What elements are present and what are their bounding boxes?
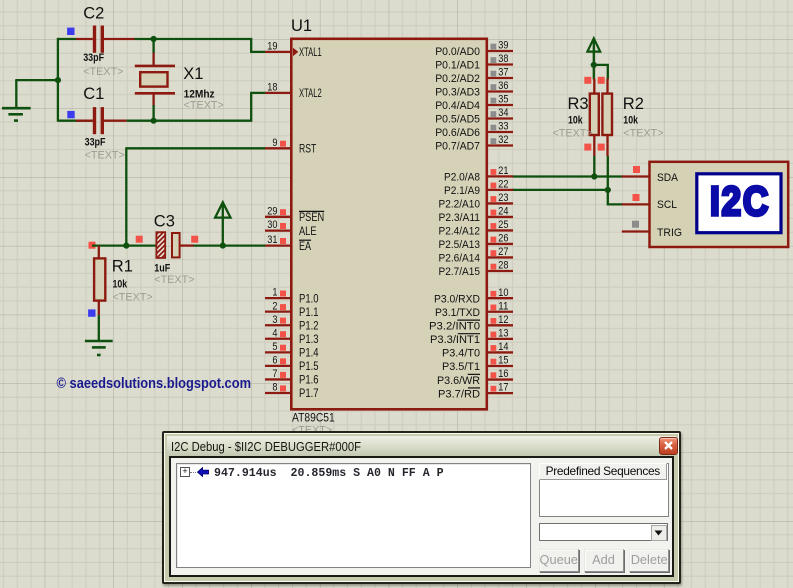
svg-text:39: 39 — [498, 40, 508, 52]
resistor R2 — [606, 79, 608, 94]
wire SDA net — [512, 175, 623, 177]
blue arrow icon — [197, 467, 209, 478]
svg-text:C3: C3 — [154, 213, 175, 231]
blue terminal square R1 bottom — [88, 309, 95, 316]
svg-text:4: 4 — [272, 327, 277, 339]
pin 10 P3.0/RXD — [487, 297, 513, 299]
gray handle square TRIG — [632, 221, 639, 228]
svg-text:33: 33 — [498, 121, 508, 133]
svg-text:17: 17 — [498, 382, 508, 394]
svg-text:<TEXT>: <TEXT> — [623, 128, 663, 140]
red handle square R3 top — [584, 77, 591, 84]
svg-text:XTAL1: XTAL1 — [299, 45, 322, 59]
svg-text:32: 32 — [498, 134, 508, 146]
node junction X1 top — [151, 36, 157, 42]
svg-text:P0.6/AD6: P0.6/AD6 — [435, 127, 480, 139]
clock input arrow XTAL1 — [293, 48, 298, 56]
svg-text:P1.4: P1.4 — [299, 346, 319, 360]
pin 39 P0.0/AD0 — [487, 50, 513, 52]
pin 30 ALE — [265, 229, 291, 231]
pin 9 RST — [265, 147, 291, 149]
wire split to R2 — [594, 65, 608, 80]
pin 5 P1.4 — [265, 351, 291, 353]
pin 37 P0.2/AD2 — [487, 77, 513, 79]
svg-text:10k: 10k — [113, 278, 129, 290]
svg-text:P3.7/RD: P3.7/RD — [438, 388, 480, 400]
I2C logo box — [697, 174, 781, 233]
red handle square SDA — [633, 166, 640, 173]
blue terminal square at C2 pin — [67, 28, 74, 35]
svg-text:21: 21 — [498, 165, 508, 177]
pin 1 P1.0 — [265, 297, 291, 299]
svg-text:EA: EA — [299, 239, 311, 253]
node junction X1 bottom — [151, 118, 157, 124]
svg-text:P0.2/AD2: P0.2/AD2 — [435, 73, 480, 85]
svg-text:P2.1/A9: P2.1/A9 — [444, 185, 480, 197]
pin 24 P2.3/A11 — [487, 216, 513, 218]
add button — [584, 549, 624, 572]
power symbol VCC1 — [215, 202, 230, 217]
svg-text:28: 28 — [498, 260, 508, 272]
svg-text:26: 26 — [498, 233, 508, 245]
svg-text:9: 9 — [272, 137, 277, 149]
blue terminal square at C1 pin — [67, 111, 74, 118]
svg-text:P2.7/A15: P2.7/A15 — [439, 266, 481, 278]
svg-text:R1: R1 — [112, 258, 133, 276]
pin 14 P3.4/T0 — [487, 351, 513, 353]
svg-text:PSEN: PSEN — [299, 210, 324, 224]
wire C2 to pin19 jog — [135, 39, 266, 52]
svg-text:P0.3/AD3: P0.3/AD3 — [435, 87, 480, 99]
ground symbol GND1 — [2, 107, 31, 110]
svg-text:33pF: 33pF — [85, 136, 106, 148]
wire X1 bottom to C1 net — [152, 105, 154, 121]
svg-text:SCL: SCL — [657, 199, 677, 211]
svg-text:37: 37 — [498, 67, 508, 79]
wire vertical bus x=57.9 — [57, 38, 59, 122]
pin 3 P1.2 — [265, 324, 291, 326]
svg-text:10k: 10k — [623, 115, 639, 127]
svg-text:P3.0/RXD: P3.0/RXD — [434, 293, 480, 305]
svg-text:<TEXT>: <TEXT> — [113, 291, 153, 303]
node junction R2-SCL — [605, 187, 611, 193]
pin SCL lead — [622, 203, 650, 205]
pin 33 P0.6/AD6 — [487, 131, 513, 133]
crystal X1 — [152, 53, 154, 66]
svg-text:P2.2/A10: P2.2/A10 — [439, 199, 481, 211]
I2C debug dialog window — [162, 431, 681, 584]
svg-text:P0.0/AD0: P0.0/AD0 — [435, 46, 480, 58]
wire ground tee — [15, 79, 58, 81]
svg-text:18: 18 — [267, 82, 277, 94]
svg-text:22: 22 — [498, 179, 508, 191]
svg-text:19: 19 — [267, 41, 277, 53]
svg-text:8: 8 — [272, 382, 277, 394]
pin 7 P1.6 — [265, 378, 291, 380]
wire node R1-to-C3 — [92, 244, 156, 246]
pin 13 P3.3/INT1 — [487, 338, 513, 340]
svg-text:35: 35 — [498, 94, 508, 106]
red handle square SCL — [633, 194, 640, 201]
pin 31 EA — [265, 244, 291, 246]
svg-text:SDA: SDA — [657, 172, 679, 184]
pin 32 P0.7/AD7 — [487, 144, 513, 146]
svg-text:P1.1: P1.1 — [299, 305, 319, 319]
svg-text:30: 30 — [267, 219, 277, 231]
svg-text:34: 34 — [498, 107, 508, 119]
svg-text:P0.5/AD5: P0.5/AD5 — [435, 114, 480, 126]
node junction at ground tee — [55, 77, 61, 83]
pin 12 P3.2/INT0 — [487, 324, 513, 326]
svg-text:<TEXT>: <TEXT> — [154, 274, 194, 286]
svg-text:P3.2/INT0: P3.2/INT0 — [429, 321, 480, 333]
svg-text:14: 14 — [498, 341, 508, 353]
svg-text:P1.3: P1.3 — [299, 332, 319, 346]
wire R1 to ground — [98, 315, 100, 341]
pin SDA lead — [622, 175, 650, 177]
svg-text:P0.1/AD1: P0.1/AD1 — [435, 60, 480, 72]
wire R2 bottom — [607, 156, 609, 190]
wire P2.1 to R2 — [512, 189, 608, 191]
svg-text:7: 7 — [272, 368, 277, 380]
resistor R3 — [593, 79, 595, 94]
pin 18 XTAL2 — [265, 92, 291, 94]
node junction R3-SDA — [591, 173, 597, 179]
svg-text:36: 36 — [498, 80, 508, 92]
power symbol VCC2 — [587, 38, 600, 51]
pin 2 P1.1 — [265, 311, 291, 313]
svg-text:13: 13 — [498, 327, 508, 339]
pin 26 P2.5/A13 — [487, 243, 513, 245]
svg-text:P3.4/T0: P3.4/T0 — [442, 348, 480, 360]
wire RST drop to R1 node — [125, 147, 127, 245]
wire SCL jog — [608, 190, 623, 205]
svg-text:C2: C2 — [83, 5, 104, 23]
svg-text:P3.3/INT1: P3.3/INT1 — [430, 334, 480, 346]
svg-text:23: 23 — [498, 192, 508, 204]
pin 25 P2.4/A12 — [487, 229, 513, 231]
predefined sequences panel — [539, 463, 669, 517]
svg-text:R3: R3 — [568, 95, 589, 113]
svg-text:P3.5/T1: P3.5/T1 — [442, 361, 480, 373]
red handle square C3 left — [136, 236, 143, 243]
red handle square C3 right — [191, 236, 198, 243]
svg-text:X1: X1 — [183, 65, 203, 83]
svg-text:1uF: 1uF — [154, 263, 170, 275]
wire C2-left to vertical bus — [58, 38, 76, 40]
queue button — [539, 549, 579, 572]
svg-text:AT89C51: AT89C51 — [292, 411, 335, 425]
pin 6 P1.5 — [265, 365, 291, 367]
microcontroller U1 body — [291, 39, 487, 410]
svg-text:10: 10 — [498, 287, 508, 299]
wire split to R3 — [593, 65, 595, 80]
svg-text:P2.3/A11: P2.3/A11 — [439, 212, 481, 224]
svg-text:29: 29 — [267, 205, 277, 217]
svg-text:P0.7/AD7: P0.7/AD7 — [435, 141, 480, 153]
svg-text:P1.5: P1.5 — [299, 359, 319, 373]
svg-text:XTAL2: XTAL2 — [299, 86, 322, 100]
node junction power arrow — [220, 243, 226, 249]
svg-text:38: 38 — [498, 53, 508, 65]
pin 34 P0.5/AD5 — [487, 117, 513, 119]
I2C debugger module U2 — [650, 162, 789, 247]
pin 16 P3.6/WR — [487, 378, 513, 380]
svg-text:P1.2: P1.2 — [299, 318, 319, 332]
pin 23 P2.2/A10 — [487, 202, 513, 204]
svg-text:6: 6 — [272, 355, 277, 367]
pin 22 P2.1/A9 — [487, 189, 513, 191]
capacitor C1 — [58, 120, 93, 122]
svg-text:15: 15 — [498, 355, 508, 367]
svg-text:24: 24 — [498, 206, 508, 218]
red handle square R3 bottom — [584, 144, 591, 151]
svg-text:ALE: ALE — [299, 224, 317, 238]
wire C1 to pin18 jog — [127, 93, 265, 121]
svg-text:P2.0/A8: P2.0/A8 — [444, 172, 480, 184]
close button — [659, 437, 679, 456]
svg-text:P1.0: P1.0 — [299, 291, 319, 305]
svg-text:2: 2 — [272, 300, 277, 312]
svg-text:R2: R2 — [623, 95, 644, 113]
pin 21 P2.0/A8 — [487, 175, 513, 177]
pin 8 P1.7 — [265, 392, 291, 394]
pin 35 P0.4/AD4 — [487, 104, 513, 106]
pin 29 PSEN — [265, 216, 291, 218]
svg-text:16: 16 — [498, 368, 508, 380]
svg-text:31: 31 — [267, 234, 277, 246]
wire R3 bottom — [593, 156, 595, 177]
pin 11 P3.1/TXD — [487, 311, 513, 313]
pin 15 P3.5/T1 — [487, 365, 513, 367]
svg-text:P0.4/AD4: P0.4/AD4 — [435, 100, 480, 112]
delete button — [629, 549, 669, 572]
svg-text:© saeedsolutions.blogspot.com: © saeedsolutions.blogspot.com — [57, 375, 252, 392]
svg-text:TRIG: TRIG — [657, 227, 682, 239]
svg-text:RST: RST — [299, 142, 316, 156]
svg-text:12: 12 — [498, 314, 508, 326]
svg-text:3: 3 — [272, 314, 277, 326]
svg-text:P2.5/A13: P2.5/A13 — [439, 239, 481, 251]
title bar — [167, 436, 676, 456]
svg-text:5: 5 — [272, 341, 277, 353]
combo box — [539, 523, 669, 541]
pin 27 P2.6/A14 — [487, 256, 513, 258]
ground symbol GND2 — [85, 340, 113, 343]
svg-text:10k: 10k — [568, 115, 584, 127]
pin TRIG lead — [622, 230, 650, 232]
pin 36 P0.3/AD3 — [487, 90, 513, 92]
svg-text:33pF: 33pF — [83, 52, 104, 64]
svg-text:<TEXT>: <TEXT> — [85, 149, 125, 161]
resistor R1 — [98, 246, 100, 259]
pin 4 P1.3 — [265, 338, 291, 340]
svg-text:P3.1/TXD: P3.1/TXD — [435, 307, 480, 319]
svg-text:P3.6/WR: P3.6/WR — [437, 375, 480, 387]
svg-text:<TEXT>: <TEXT> — [83, 66, 123, 78]
pin 19 XTAL1 — [265, 51, 291, 53]
sequence list — [176, 463, 531, 568]
wire C3 to EA — [193, 244, 265, 246]
svg-text:P1.7: P1.7 — [299, 386, 319, 400]
svg-text:U1: U1 — [291, 17, 312, 35]
pin 38 P0.1/AD1 — [487, 63, 513, 65]
svg-text:C1: C1 — [83, 85, 104, 103]
svg-text:P2.6/A14: P2.6/A14 — [439, 253, 481, 265]
wire RST horizontal — [126, 147, 265, 149]
pin 17 P3.7/RD — [487, 392, 513, 394]
svg-text:11: 11 — [498, 300, 508, 312]
svg-text:25: 25 — [498, 219, 508, 231]
capacitor C2 — [76, 38, 93, 40]
svg-text:1: 1 — [272, 287, 277, 299]
red handle square R1 top — [89, 242, 96, 249]
svg-text:<TEXT>: <TEXT> — [184, 100, 224, 112]
node junction R3/R2 split — [591, 62, 597, 68]
red handle square R2 top — [598, 77, 605, 84]
svg-text:I2C: I2C — [710, 179, 770, 225]
svg-text:<TEXT>: <TEXT> — [553, 128, 593, 140]
wire ground drop — [15, 80, 17, 108]
svg-text:P2.4/A12: P2.4/A12 — [439, 226, 481, 238]
client area — [169, 456, 674, 577]
red handle square R2 bottom — [598, 144, 605, 151]
svg-text:P1.6: P1.6 — [299, 373, 319, 387]
pin 28 P2.7/A15 — [487, 270, 513, 272]
svg-text:27: 27 — [498, 246, 508, 258]
wire X1 top stub — [152, 39, 154, 54]
node junction RST drop — [123, 243, 129, 249]
